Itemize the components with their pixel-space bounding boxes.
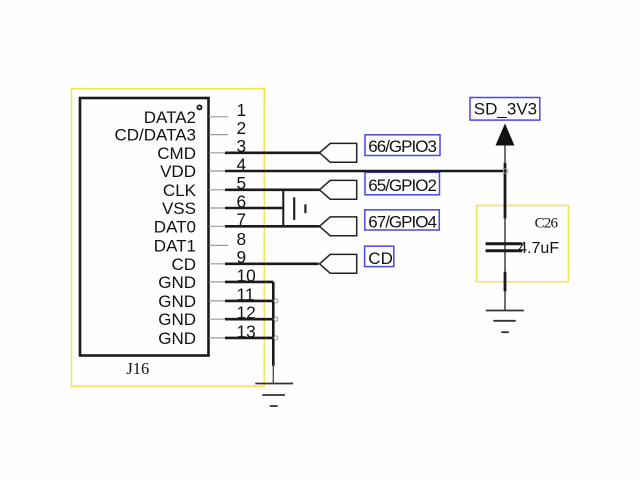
svg-text:C26: C26 <box>535 216 559 232</box>
svg-text:DAT1: DAT1 <box>154 236 196 255</box>
svg-text:GND: GND <box>158 329 196 348</box>
svg-text:SD_3V3: SD_3V3 <box>474 100 537 119</box>
svg-text:67/GPIO4: 67/GPIO4 <box>368 212 436 231</box>
svg-text:J16: J16 <box>126 359 149 378</box>
svg-text:DATA2: DATA2 <box>144 108 196 127</box>
svg-text:GND: GND <box>158 292 196 311</box>
svg-text:2: 2 <box>237 118 247 138</box>
svg-text:CLK: CLK <box>163 181 197 200</box>
svg-text:65/GPIO2: 65/GPIO2 <box>368 176 436 195</box>
svg-text:VDD: VDD <box>160 162 196 181</box>
svg-text:DAT0: DAT0 <box>154 217 196 236</box>
svg-text:GND: GND <box>158 310 196 329</box>
svg-text:CD: CD <box>171 255 196 274</box>
svg-text:CD/DATA3: CD/DATA3 <box>114 126 196 145</box>
svg-text:CMD: CMD <box>157 144 196 163</box>
svg-text:66/GPIO3: 66/GPIO3 <box>368 137 436 156</box>
svg-text:VSS: VSS <box>162 199 196 218</box>
svg-text:8: 8 <box>237 229 247 249</box>
svg-text:GND: GND <box>158 273 196 292</box>
svg-text:4.7uF: 4.7uF <box>518 240 559 257</box>
svg-text:CD: CD <box>368 249 393 268</box>
